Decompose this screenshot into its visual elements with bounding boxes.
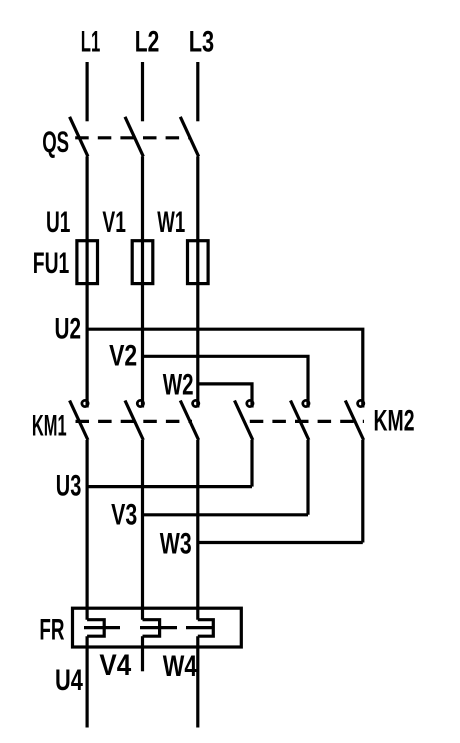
thermal relay FR heater 2	[143, 620, 160, 637]
svg-text:W2: W2	[163, 369, 194, 402]
contactor KM2 pole4 blade	[235, 401, 253, 441]
wire node W2 horizontal to KM2 pole4	[198, 384, 252, 408]
svg-text:W4: W4	[163, 650, 198, 683]
contactor KM2 pole5 blade	[291, 401, 309, 441]
wire QS pole3 to fuse FU1-3	[196, 156, 199, 407]
wire node U3 horizontal	[87, 485, 252, 488]
svg-text:U1: U1	[46, 206, 70, 239]
wire node V2 horizontal to KM2 pole5	[143, 356, 309, 407]
svg-text:L2: L2	[135, 25, 160, 58]
switch QS pole2 blade	[125, 117, 143, 157]
contactor KM1 pole1 blade	[70, 401, 88, 441]
contactor KM1 pole3 blade	[180, 401, 198, 441]
svg-text:V2: V2	[109, 339, 137, 372]
svg-text:U4: U4	[55, 664, 83, 697]
switch QS linkage dashed line	[75, 136, 190, 139]
svg-text:FR: FR	[39, 613, 64, 646]
contactor KM2 pole5 contact circle	[303, 400, 309, 406]
switch QS pole1 blade	[70, 117, 88, 157]
fuse FU1 phase 1 body	[77, 241, 98, 284]
svg-text:L3: L3	[189, 25, 214, 58]
svg-text:L1: L1	[81, 25, 101, 58]
thermal relay FR box	[73, 608, 242, 647]
wire FR heater 2 to node V4 output	[141, 636, 144, 671]
wire L2 to QS pole2	[141, 62, 144, 121]
wire KM1 pole2 down to FR heater 2	[141, 440, 144, 620]
svg-text:U2: U2	[55, 312, 82, 345]
contactor KM2 pole6 contact circle	[358, 400, 364, 406]
fuse FU1 phase 2 body	[132, 241, 153, 284]
svg-text:QS: QS	[42, 126, 69, 159]
contactor KM2 pole6 blade	[345, 401, 363, 441]
svg-text:W3: W3	[160, 528, 192, 561]
svg-text:V3: V3	[111, 499, 137, 532]
svg-text:U3: U3	[56, 469, 82, 502]
wire KM2 pole6 down to node W3	[361, 440, 364, 543]
contactor KM2 linkage dashed line	[250, 420, 364, 423]
wire QS pole1 to fuse FU1-1	[85, 156, 88, 407]
wire L3 to QS pole3	[196, 62, 199, 121]
wire KM1 pole3 down to FR heater 3	[196, 440, 199, 620]
contactor KM1 pole1 contact circle	[82, 400, 88, 406]
thermal relay FR linkage dash 3	[186, 626, 213, 629]
contactor KM1 linkage dashed line	[76, 420, 193, 423]
thermal relay FR heater 3	[198, 620, 214, 637]
switch QS pole3 blade	[180, 117, 198, 157]
fuse FU1 phase 3 body	[188, 241, 209, 284]
contactor KM1 pole2 contact circle	[137, 400, 143, 406]
wire FR heater 3 to node W4 output	[196, 636, 199, 727]
contactor KM2 pole4 contact circle	[247, 400, 253, 406]
thermal relay FR heater 1	[87, 620, 104, 637]
wire KM2 pole4 down to node U3	[250, 440, 253, 487]
wire KM2 pole5 down to node V3	[306, 440, 309, 515]
wire node U2 horizontal to KM2 pole6	[87, 329, 363, 407]
svg-text:V4: V4	[99, 649, 131, 682]
svg-text:FU1: FU1	[33, 247, 70, 280]
svg-text:KM2: KM2	[374, 404, 415, 437]
wire L1 to QS pole1	[85, 62, 88, 121]
svg-text:V1: V1	[102, 206, 126, 239]
contactor KM1 pole3 contact circle	[193, 400, 199, 406]
wire node V3 horizontal	[143, 513, 309, 516]
wire QS pole2 to fuse FU1-2	[141, 156, 144, 407]
wire node W3 horizontal	[198, 541, 363, 544]
thermal relay FR linkage dash 2	[140, 626, 177, 629]
svg-text:W1: W1	[157, 206, 185, 239]
wire KM1 pole1 down to FR heater 1	[85, 440, 88, 620]
thermal relay FR linkage dash 1	[84, 626, 120, 629]
contactor KM1 pole2 blade	[125, 401, 143, 441]
svg-text:KM1: KM1	[32, 409, 67, 442]
wire FR heater 1 to node U4 output	[85, 636, 88, 727]
